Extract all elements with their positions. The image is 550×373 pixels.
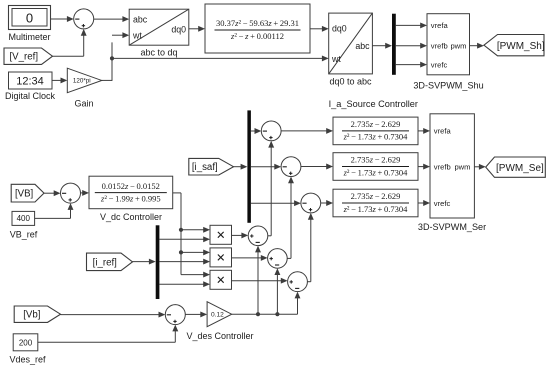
svg-text:z² − 1.73z + 0.7304: z² − 1.73z + 0.7304 [343,132,409,142]
svg-text:400: 400 [17,214,31,223]
svg-text:[PWM_Sh]: [PWM_Sh] [497,41,545,52]
svg-text:vrefc: vrefc [434,199,451,208]
svg-text:dq0: dq0 [171,25,186,35]
svg-text:0.12: 0.12 [211,312,224,319]
svg-text:0.0152z − 0.0152: 0.0152z − 0.0152 [102,181,160,191]
svg-text:0: 0 [26,10,33,25]
svg-text:abc: abc [355,41,370,51]
svg-text:2.735z − 2.629: 2.735z − 2.629 [351,155,401,165]
svg-text:3D-SVPWM_Ser: 3D-SVPWM_Ser [418,222,486,232]
svg-text:[Vb]: [Vb] [23,310,40,321]
svg-text:dq0 to abc: dq0 to abc [329,76,372,86]
svg-text:[i_saf]: [i_saf] [192,162,218,173]
svg-text:[VB]: [VB] [15,189,33,200]
svg-text:abc: abc [133,15,148,25]
svg-text:2.735z − 2.629: 2.735z − 2.629 [351,119,401,129]
svg-text:30.37z² − 59.63z + 29.31: 30.37z² − 59.63z + 29.31 [216,18,299,28]
svg-text:z² − 1.73z + 0.7304: z² − 1.73z + 0.7304 [343,167,409,177]
svg-text:200: 200 [19,338,33,347]
svg-text:dq0: dq0 [332,24,347,34]
svg-text:vrefa: vrefa [434,127,452,136]
svg-text:12:34: 12:34 [16,76,44,88]
svg-text:[V_ref]: [V_ref] [9,52,38,63]
svg-text:V_des Controller: V_des Controller [186,331,253,341]
svg-text:vrefa: vrefa [431,21,449,30]
svg-text:[i_ref]: [i_ref] [93,257,117,268]
svg-text:vrefb: vrefb [434,163,451,172]
svg-text:[PWM_Se]: [PWM_Se] [496,163,544,174]
svg-text:Vdes_ref: Vdes_ref [9,354,46,364]
svg-text:abc to dq: abc to dq [140,47,177,57]
svg-text:pwm: pwm [450,42,466,51]
svg-text:Gain: Gain [74,99,93,109]
svg-text:VB_ref: VB_ref [10,229,38,239]
svg-text:z² − 1.73z + 0.7304: z² − 1.73z + 0.7304 [343,204,409,214]
svg-text:z² − z + 0.00112: z² − z + 0.00112 [230,31,284,41]
svg-text:Multimeter: Multimeter [8,32,50,42]
svg-text:pwm: pwm [454,163,470,172]
svg-text:wt: wt [132,30,142,40]
svg-text:V_dc Controller: V_dc Controller [100,212,162,222]
svg-text:3D-SVPWM_Shu: 3D-SVPWM_Shu [413,80,483,90]
svg-text:I_a_Source Controller: I_a_Source Controller [329,99,418,109]
svg-text:vrefc: vrefc [431,60,448,69]
svg-text:Digital Clock: Digital Clock [5,91,56,101]
svg-text:wt: wt [331,54,341,64]
svg-text:z² − 1.99z + 0.995: z² − 1.99z + 0.995 [100,193,161,203]
svg-text:120*pi: 120*pi [73,78,91,85]
svg-text:2.735z − 2.629: 2.735z − 2.629 [351,191,401,201]
svg-text:vrefb: vrefb [431,42,448,51]
